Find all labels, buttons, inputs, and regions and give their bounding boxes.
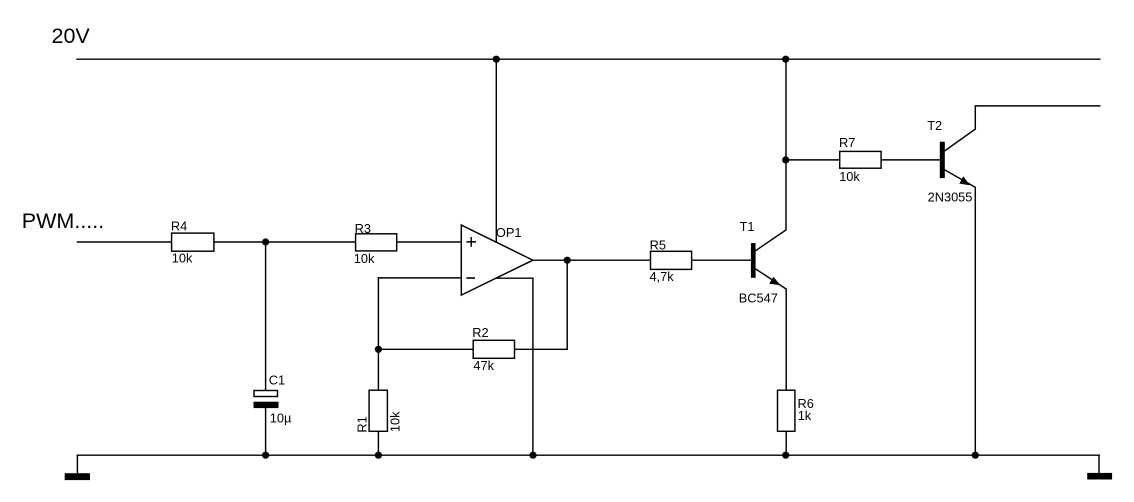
svg-text:T2: T2 <box>927 118 942 133</box>
svg-text:R5: R5 <box>650 237 666 252</box>
svg-text:1k: 1k <box>798 408 812 423</box>
svg-text:20V: 20V <box>52 24 91 48</box>
svg-text:10k: 10k <box>354 251 375 266</box>
svg-text:C1: C1 <box>269 372 285 387</box>
svg-text:10µ: 10µ <box>270 410 292 425</box>
svg-text:2N3055: 2N3055 <box>928 189 973 204</box>
svg-text:R2: R2 <box>472 325 488 340</box>
svg-text:R3: R3 <box>355 221 371 236</box>
svg-text:10k: 10k <box>172 251 193 266</box>
svg-text:PWM.....: PWM..... <box>22 209 104 233</box>
svg-text:R7: R7 <box>839 135 855 150</box>
svg-text:R1: R1 <box>355 416 370 432</box>
svg-text:R4: R4 <box>171 219 187 234</box>
svg-text:10k: 10k <box>839 169 860 184</box>
svg-text:T1: T1 <box>740 219 755 234</box>
svg-text:OP1: OP1 <box>496 225 522 240</box>
svg-text:10k: 10k <box>388 411 403 432</box>
svg-text:4,7k: 4,7k <box>650 269 675 284</box>
svg-text:47k: 47k <box>473 358 494 373</box>
svg-text:BC547: BC547 <box>739 290 778 305</box>
